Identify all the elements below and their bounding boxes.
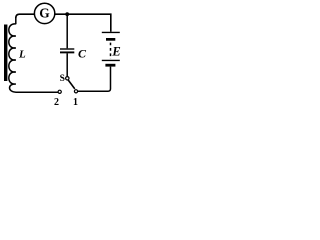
svg-text:G: G (39, 6, 50, 21)
svg-text:2: 2 (54, 97, 59, 108)
svg-text:S: S (60, 74, 65, 84)
svg-text:C: C (78, 46, 87, 60)
svg-text:1: 1 (73, 97, 78, 108)
svg-text:L: L (18, 49, 26, 61)
svg-text:E: E (111, 45, 120, 59)
